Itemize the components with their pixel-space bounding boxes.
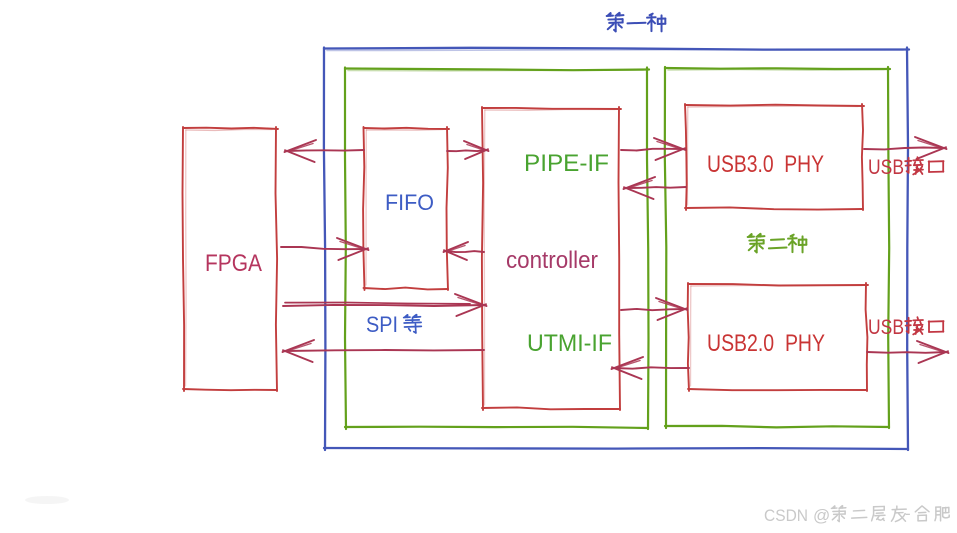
svg-text:-: -	[905, 504, 911, 523]
svg-text:FPGA: FPGA	[205, 250, 262, 277]
svg-text:FIFO: FIFO	[385, 190, 434, 215]
svg-text:USB: USB	[868, 156, 904, 179]
svg-text:CSDN: CSDN	[764, 507, 808, 525]
svg-text:USB3.0 PHY: USB3.0 PHY	[707, 151, 824, 178]
svg-text:UTMI-IF: UTMI-IF	[527, 330, 612, 357]
svg-text:USB: USB	[868, 316, 904, 339]
svg-text:controller: controller	[506, 247, 598, 274]
svg-text:@: @	[813, 506, 830, 525]
svg-text:USB2.0 PHY: USB2.0 PHY	[707, 330, 825, 357]
svg-text:SPI: SPI	[366, 312, 398, 337]
svg-text:PIPE-IF: PIPE-IF	[524, 150, 609, 177]
